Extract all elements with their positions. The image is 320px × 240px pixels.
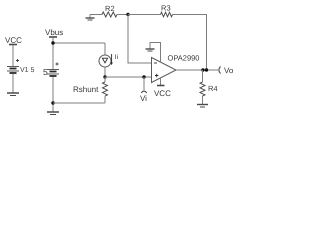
wire bottom rail (junction to Rshunt bottom) <box>53 102 105 104</box>
ground (left of R2) <box>86 15 95 21</box>
wire V2 bottom to bottom junction <box>52 77 54 112</box>
wire +input node to op-amp <box>105 76 152 78</box>
wire Rshunt top stub <box>104 77 106 82</box>
wire op-amp output <box>176 69 218 71</box>
op-amp plus sign <box>155 74 158 77</box>
wire R3 to top-right corner and down to output node <box>173 15 207 71</box>
op-amp U1 triangle <box>152 58 177 83</box>
svg-text:Vbus: Vbus <box>45 28 63 37</box>
resistor R4 <box>200 82 205 96</box>
svg-text:Ii: Ii <box>115 54 118 61</box>
junction Vbus <box>51 41 54 44</box>
junction bottom-left <box>51 101 54 104</box>
svg-text:OPA2990: OPA2990 <box>167 54 199 63</box>
wire Vbus junction to probe (top rail) <box>53 42 105 44</box>
svg-text:VCC: VCC <box>154 89 171 98</box>
ground (below V1) <box>7 93 19 96</box>
svg-text:Vo: Vo <box>224 66 234 75</box>
op-amp minus sign <box>154 62 157 64</box>
battery V2 value 5 <box>47 63 59 77</box>
resistor R2 <box>102 12 117 17</box>
ground (below Vbus branch) <box>47 112 59 115</box>
probe arrow (triangle inside) <box>102 58 107 63</box>
wire probe bottom to +input node <box>104 67 106 77</box>
svg-text:5: 5 <box>43 67 48 77</box>
wire Vi stub <box>143 77 145 90</box>
wire Rshunt bottom to bottom rail <box>104 96 106 103</box>
current probe Ii (circle) <box>99 55 111 67</box>
battery V1 <box>7 59 19 73</box>
svg-text:R2: R2 <box>105 4 115 13</box>
junction Rshunt top / +input <box>103 75 106 78</box>
current direction arrow Ii <box>110 54 112 65</box>
svg-text:V1 5: V1 5 <box>20 67 35 74</box>
svg-text:Rshunt: Rshunt <box>73 85 99 94</box>
wire Vbus port down to junction <box>52 38 54 70</box>
wire V+ supply stub <box>160 78 162 86</box>
node VCC (op-amp supply port) <box>157 85 165 87</box>
wire R4 bottom to ground <box>202 96 204 104</box>
svg-text:R4: R4 <box>208 84 218 93</box>
svg-text:R3: R3 <box>161 4 171 13</box>
junction output/R4 <box>201 68 204 71</box>
node VCC (left supply port) <box>9 44 17 46</box>
resistor R3 <box>161 12 173 17</box>
svg-text:VCC: VCC <box>5 36 22 45</box>
junction Vi tap <box>142 75 145 78</box>
junction output/R3 <box>205 68 208 71</box>
wire feedback vertical down to inverting input <box>128 15 152 64</box>
ground (op-amp V-) <box>146 49 155 51</box>
wire top rail corner down to probe <box>104 43 106 55</box>
svg-text:Vi: Vi <box>140 94 147 103</box>
wire R2 to feedback junction <box>117 14 128 16</box>
wire junction to R3 <box>128 14 161 16</box>
wire R4 stub <box>202 70 204 82</box>
wire V1 bottom to ground <box>12 74 14 93</box>
node Vi (port chevron) <box>141 91 146 93</box>
wire V- supply to ground <box>150 43 161 63</box>
ground (below R4) <box>197 105 208 108</box>
junction feedback node <box>126 13 129 16</box>
resistor Rshunt <box>103 82 108 96</box>
wire ground to R2 <box>90 14 102 16</box>
node Vbus (port) <box>49 36 57 38</box>
node Vo (output port arc) <box>219 67 221 74</box>
wire VCC port to V1 top <box>12 45 14 66</box>
